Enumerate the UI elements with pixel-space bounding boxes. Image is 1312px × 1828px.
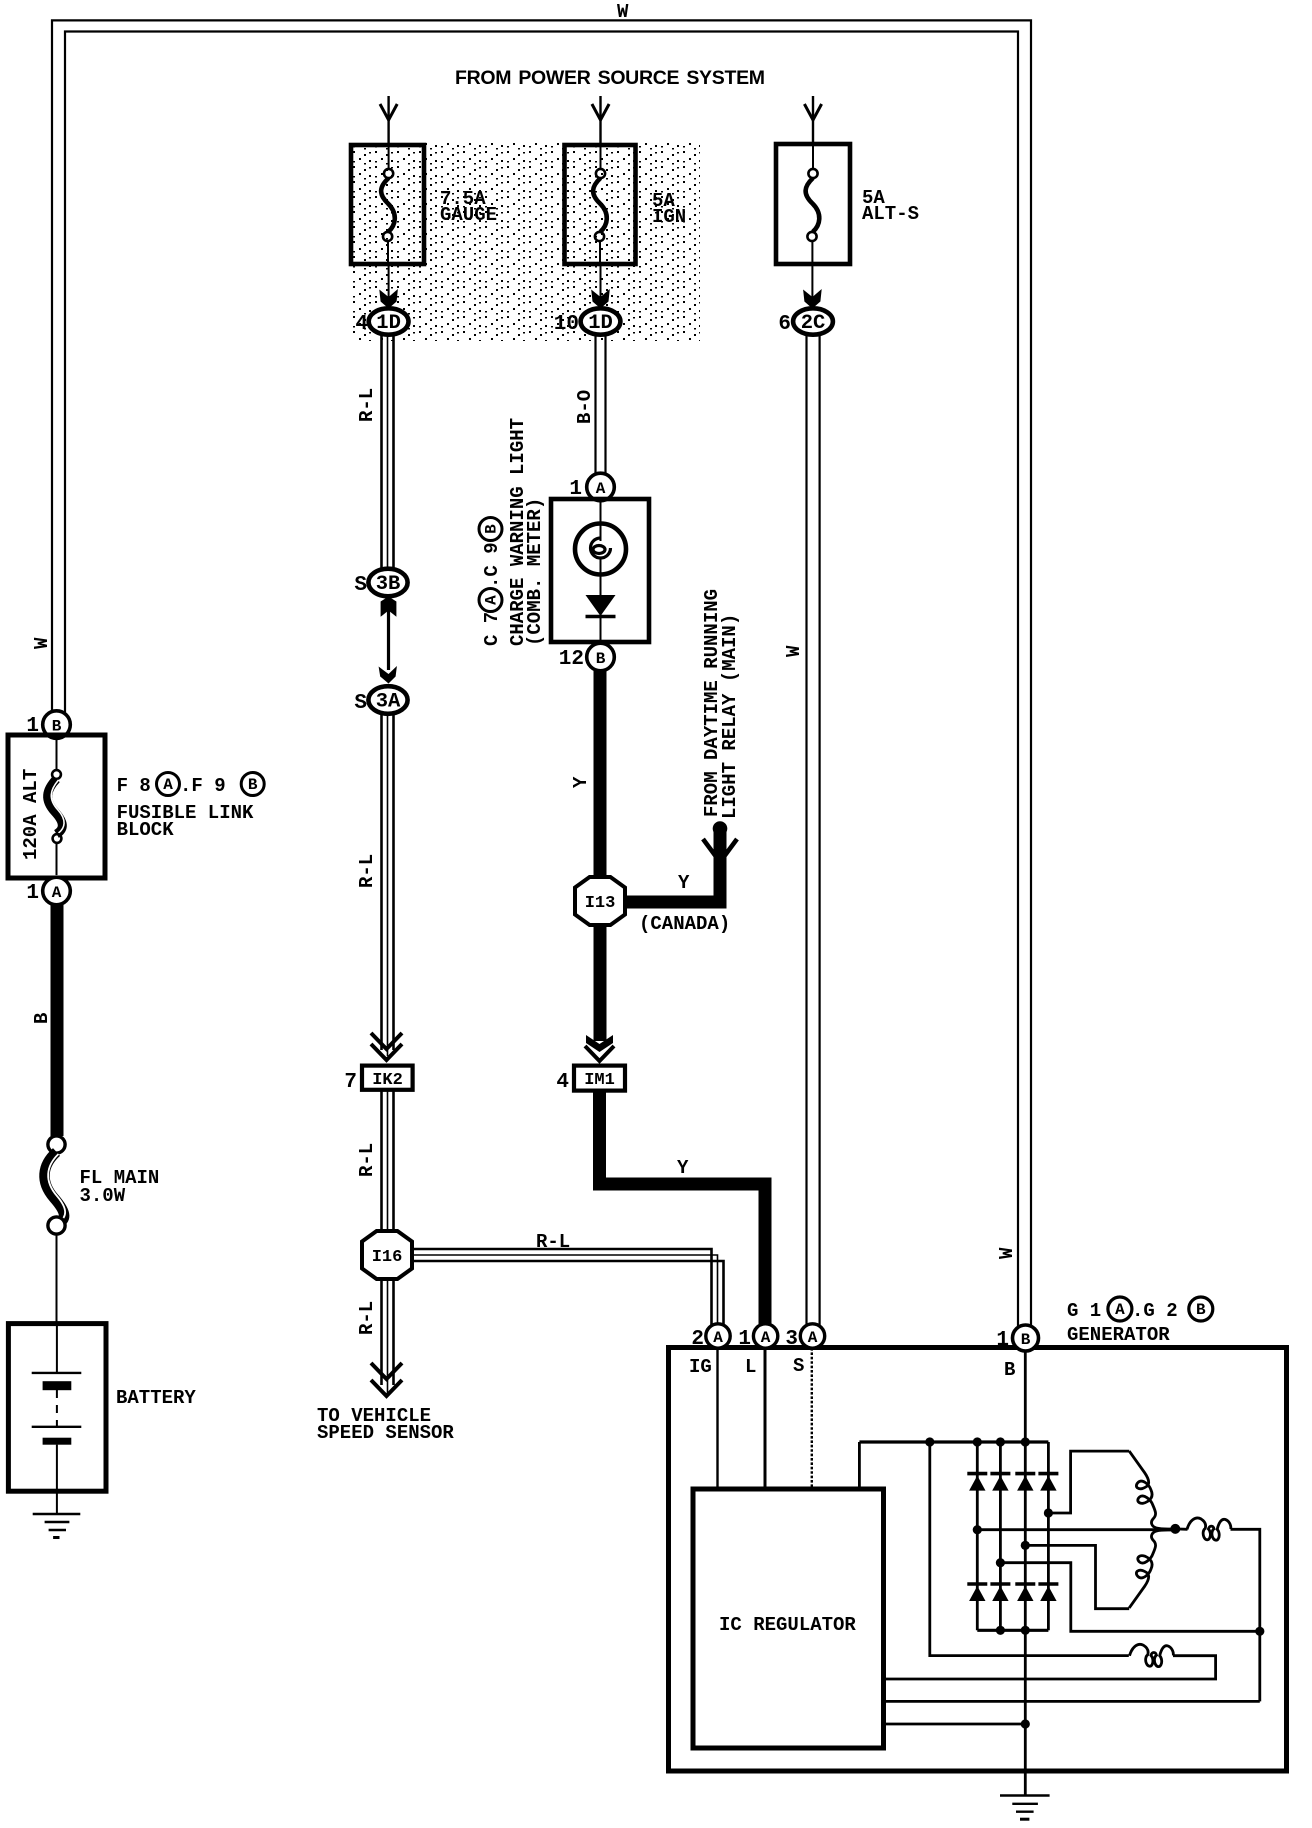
svg-text:1: 1 xyxy=(996,1329,1009,1352)
open arrow from daytime running light relay xyxy=(703,839,737,862)
svg-text:Y: Y xyxy=(677,1157,689,1179)
stator coil right xyxy=(1187,1518,1231,1540)
connector 7 IK2 xyxy=(362,1066,413,1090)
svg-text:IK2: IK2 xyxy=(372,1071,403,1090)
IC regulator box xyxy=(693,1489,884,1748)
stator coil upper xyxy=(1129,1451,1175,1529)
svg-text:S: S xyxy=(354,692,367,715)
wire FL MAIN to battery xyxy=(56,1234,58,1324)
svg-text:Y: Y xyxy=(678,872,690,894)
svg-text:BLOCK: BLOCK xyxy=(117,819,175,841)
svg-text:LIGHT RELAY (MAIN): LIGHT RELAY (MAIN) xyxy=(719,614,741,819)
svg-text:R-L: R-L xyxy=(356,1301,378,1335)
svg-text:3.0W: 3.0W xyxy=(80,1185,126,1207)
svg-text:IM1: IM1 xyxy=(584,1071,615,1090)
wire B terminal down through rectifier xyxy=(1024,1351,1027,1796)
wire R-L triple-line 3A to IK2 arrow xyxy=(382,713,394,1056)
wire from power source into fuse 1 with open arrow xyxy=(387,96,389,145)
rounded cap on daytime relay wire xyxy=(713,821,728,836)
wire W double-line 2C to generator S xyxy=(807,334,820,1326)
wire B-O double-line 1D to charge light A xyxy=(596,334,606,475)
wire L terminal to IC regulator xyxy=(764,1348,767,1489)
wire W (fusible link B to generator B, double-line outer run) xyxy=(52,20,1031,1326)
svg-text:B: B xyxy=(596,650,606,668)
svg-text:A: A xyxy=(596,480,606,498)
battery box xyxy=(8,1324,106,1492)
stator coil lower xyxy=(1129,1530,1175,1608)
wire from power source into fuse 2 with open arrow xyxy=(599,96,601,145)
svg-text:L: L xyxy=(745,1356,756,1378)
svg-text:ALT-S: ALT-S xyxy=(862,203,919,225)
svg-text:12: 12 xyxy=(559,648,584,671)
svg-text:A: A xyxy=(483,595,501,605)
lamp CHARGE warning bulb xyxy=(575,524,626,575)
svg-text:3B: 3B xyxy=(376,573,401,596)
node phase V from column 3 xyxy=(1021,1541,1030,1550)
junction dots on top rail xyxy=(925,1437,934,1446)
terminal 1 B (B) xyxy=(1013,1325,1039,1351)
svg-text:2: 2 xyxy=(691,1328,704,1351)
svg-text:A: A xyxy=(163,776,173,794)
diode D4 (top row) xyxy=(1038,1474,1058,1491)
svg-text:1D: 1D xyxy=(376,312,401,335)
svg-text:IGN: IGN xyxy=(652,206,686,228)
charge warning light box (comb. meter) xyxy=(551,499,649,642)
svg-text:3A: 3A xyxy=(376,691,401,714)
connector 12 B (charge warning light) xyxy=(587,643,615,671)
svg-text:1D: 1D xyxy=(588,312,613,335)
fusible link block box xyxy=(8,735,105,878)
label R-L xyxy=(356,1301,378,1335)
fuse 5A ALT-S xyxy=(776,144,850,264)
diode in meter xyxy=(586,595,616,617)
svg-text:FROM POWER SOURCE SYSTEM: FROM POWER SOURCE SYSTEM xyxy=(455,67,765,89)
solid arrow up into 3B xyxy=(381,597,397,617)
svg-text:B: B xyxy=(1021,1331,1031,1349)
wire R-L triple-line 1D to junction 3B xyxy=(382,334,394,570)
connector 1 A (fusible link bottom) xyxy=(43,877,71,905)
svg-text:Y: Y xyxy=(570,776,592,788)
label R-L xyxy=(356,1143,378,1177)
svg-text:B: B xyxy=(1196,1301,1206,1319)
open double arrow to vehicle speed sensor xyxy=(371,1363,402,1379)
svg-text:1: 1 xyxy=(26,882,39,905)
svg-text:GENERATOR: GENERATOR xyxy=(1067,1324,1170,1346)
svg-text:S: S xyxy=(354,574,367,597)
label B-O xyxy=(574,390,596,424)
connector 6 2C xyxy=(793,308,833,335)
wire R-L triple-line IK2 to I16 xyxy=(382,1090,394,1233)
wire fuse1 to connector 1D with solid arrow xyxy=(388,264,390,300)
svg-text:3: 3 xyxy=(785,1328,798,1351)
wire Y thick I13 right to daytime relay branch xyxy=(625,829,720,902)
wire S terminal to IC regulator (dotted) xyxy=(811,1348,813,1489)
svg-text:W: W xyxy=(996,1247,1018,1259)
IC regulator phase sense pin xyxy=(884,1700,1260,1703)
svg-text:.G 2: .G 2 xyxy=(1132,1300,1178,1322)
splice I16 octagon xyxy=(362,1231,412,1279)
svg-text:IG: IG xyxy=(689,1356,712,1378)
diode D7 (bottom row) xyxy=(1015,1584,1035,1601)
node phase U from column 4 xyxy=(1044,1508,1053,1517)
svg-text:10: 10 xyxy=(554,313,579,336)
wire R-L triple-line I16 right to generator IG xyxy=(412,1249,724,1326)
label FROM DAYTIME RUNNING LIGHT RELAY (MAIN) (rotated) xyxy=(701,589,723,817)
wire W (double-line inner run) xyxy=(65,32,1018,1327)
svg-text:I16: I16 xyxy=(372,1248,403,1267)
generator box xyxy=(669,1348,1287,1772)
svg-text:IC REGULATOR: IC REGULATOR xyxy=(719,1614,856,1636)
stipple highlight band behind fuses xyxy=(349,143,700,341)
svg-text:(COMB. METER): (COMB. METER) xyxy=(524,498,546,646)
junction connector S 3A xyxy=(368,686,407,714)
diode D8 (bottom row) xyxy=(1038,1584,1058,1601)
label R-L xyxy=(356,854,378,888)
svg-text:A: A xyxy=(1115,1301,1125,1319)
svg-text:A: A xyxy=(808,1329,818,1347)
connector 10 1D xyxy=(581,308,621,335)
connector 4 1D xyxy=(369,308,409,335)
svg-text:B-O: B-O xyxy=(574,390,596,424)
value label 120A ALT (rotated) xyxy=(20,769,42,860)
terminal 1 A (L) xyxy=(753,1324,777,1348)
svg-text:I13: I13 xyxy=(585,894,616,913)
open double arrow into IK2 xyxy=(371,1033,402,1049)
svg-text:C 7: C 7 xyxy=(481,612,503,646)
wire fuse2 to connector 1D with solid arrow xyxy=(600,264,602,300)
IC regulator B- pin xyxy=(884,1723,1026,1726)
svg-text:120A ALT: 120A ALT xyxy=(20,769,42,860)
svg-text:R-L: R-L xyxy=(536,1231,570,1253)
svg-text:(CANADA): (CANADA) xyxy=(639,913,730,935)
svg-text:A: A xyxy=(761,1329,771,1347)
wire Y thick I13 to IM1 arrow xyxy=(594,925,607,1041)
rotor field coil feed xyxy=(930,1442,1129,1656)
battery cells xyxy=(32,1324,82,1492)
wire IC regulator to B+ rail xyxy=(858,1442,861,1489)
svg-text:S: S xyxy=(793,1355,804,1377)
splice I13 octagon xyxy=(575,877,625,925)
svg-text:W: W xyxy=(617,1,629,23)
label Y xyxy=(570,776,592,788)
svg-text:G 1: G 1 xyxy=(1067,1300,1101,1322)
label (COMB. METER) (rotated) xyxy=(524,498,546,646)
svg-text:R-L: R-L xyxy=(356,388,378,422)
wire B thick fusible link to FL MAIN xyxy=(51,904,64,1136)
rectifier columns xyxy=(976,1442,979,1630)
svg-text:W: W xyxy=(31,637,53,649)
label C 7 A , C 9 B (rotated) xyxy=(479,518,503,647)
svg-text:R-L: R-L xyxy=(356,1143,378,1177)
field coil to IC regulator pin xyxy=(884,1656,1216,1679)
diode D2 (top row) xyxy=(990,1474,1010,1491)
svg-text:2C: 2C xyxy=(801,312,826,335)
diode D6 (bottom row) xyxy=(990,1584,1010,1601)
svg-text:F 8: F 8 xyxy=(117,775,151,797)
svg-text:B: B xyxy=(1004,1359,1015,1381)
svg-text:B: B xyxy=(248,776,258,794)
wire fuse3 to connector 2C with solid arrow xyxy=(811,264,813,300)
wire inside meter xyxy=(600,499,602,642)
svg-text:4: 4 xyxy=(355,313,368,336)
fuse 5A IGN xyxy=(565,145,636,264)
svg-text:R-L: R-L xyxy=(356,854,378,888)
wire Y thick 12B to splice I13 xyxy=(594,670,607,880)
label F 8 A , F 9 B xyxy=(117,773,265,798)
svg-text:4: 4 xyxy=(556,1071,569,1094)
svg-text:A: A xyxy=(713,1329,723,1347)
wire from power source into fuse 3 with open arrow xyxy=(812,96,814,145)
diode D1 (top row) xyxy=(967,1474,987,1491)
rotor field coil xyxy=(1130,1644,1174,1666)
svg-text:B: B xyxy=(31,1013,53,1024)
svg-text:.C 9: .C 9 xyxy=(481,542,503,588)
terminal 2 A (IG) xyxy=(706,1324,730,1348)
rectifier bottom rail xyxy=(977,1629,1048,1632)
wire IG terminal to IC regulator xyxy=(716,1348,718,1489)
ground (generator) xyxy=(1000,1796,1050,1820)
fusible link FL MAIN 3.0W xyxy=(44,1136,65,1234)
svg-text:6: 6 xyxy=(778,313,791,336)
diode D3 (top row) xyxy=(1015,1474,1035,1491)
svg-text:A: A xyxy=(52,884,62,902)
svg-text:SPEED SENSOR: SPEED SENSOR xyxy=(317,1422,454,1444)
solid arrow down into 3A xyxy=(379,666,397,684)
Y junction xyxy=(1170,1524,1180,1534)
diode D5 (bottom row) xyxy=(967,1584,987,1601)
label B xyxy=(31,1013,53,1024)
svg-text:1: 1 xyxy=(738,1328,751,1351)
svg-text:W: W xyxy=(783,645,805,657)
junction connector S 3B xyxy=(368,569,407,597)
wire Y thick IM1 to generator L xyxy=(600,1091,766,1326)
node phase W from column 2 xyxy=(996,1558,1005,1567)
svg-text:.F 9: .F 9 xyxy=(180,775,226,797)
rectifier top rail xyxy=(859,1440,1048,1443)
svg-text:7: 7 xyxy=(344,1071,357,1094)
ground (battery) xyxy=(33,1514,81,1538)
solid arrow into IM1 xyxy=(586,1035,613,1052)
wire 3B to 3A xyxy=(387,610,390,670)
connector 4 IM1 xyxy=(574,1066,625,1091)
connector 1 B (fusible link top) xyxy=(43,711,71,739)
label CHARGE WARNING LIGHT (rotated) xyxy=(507,418,529,646)
terminal 3 A (S) xyxy=(800,1324,824,1348)
svg-text:BATTERY: BATTERY xyxy=(116,1387,196,1409)
wire battery to ground xyxy=(56,1491,58,1514)
connector 1 A (charge warning light) xyxy=(587,473,615,501)
label R-L xyxy=(356,388,378,422)
label W right xyxy=(996,1247,1018,1259)
svg-text:GAUGE: GAUGE xyxy=(440,204,497,226)
wire R-L triple-line I16 down to arrow xyxy=(382,1279,394,1393)
fusible link 120A ALT element xyxy=(48,738,64,875)
svg-text:B: B xyxy=(483,524,501,534)
stator mid rail to Y point xyxy=(977,1528,1175,1531)
label W xyxy=(783,645,805,657)
label W left xyxy=(31,637,53,649)
label G 1 A , G 2 B xyxy=(1067,1297,1213,1322)
fuse 7.5A GAUGE xyxy=(351,145,424,264)
